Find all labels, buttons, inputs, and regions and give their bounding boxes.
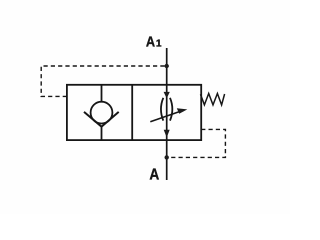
pilot line dashed from left body edge to node A1 <box>41 66 165 96</box>
junction node at A pilot tap <box>165 155 169 159</box>
body divider wire <box>131 85 133 140</box>
check valve outlet wire <box>101 126 103 141</box>
svg-text:1: 1 <box>156 39 162 50</box>
spring <box>201 94 225 105</box>
throttle arc left <box>161 98 163 121</box>
svg-text:A: A <box>149 166 159 183</box>
throttle adjustment arrow shaft <box>150 111 180 122</box>
flow line A1 to A <box>166 48 168 180</box>
throttle adjustment arrow head <box>177 108 188 114</box>
throttle arc right <box>170 98 172 121</box>
flow arrow top <box>164 92 170 99</box>
check valve V1 seat <box>84 112 119 127</box>
flow arrow bottom <box>164 130 170 138</box>
pilot line dashed from right body edge to node A <box>169 129 226 157</box>
check valve V1 ball <box>91 102 113 124</box>
valve body envelope <box>67 85 201 140</box>
junction node at A1 pilot tap <box>165 64 169 68</box>
check valve inlet wire <box>101 85 103 102</box>
svg-text:A: A <box>146 35 156 51</box>
